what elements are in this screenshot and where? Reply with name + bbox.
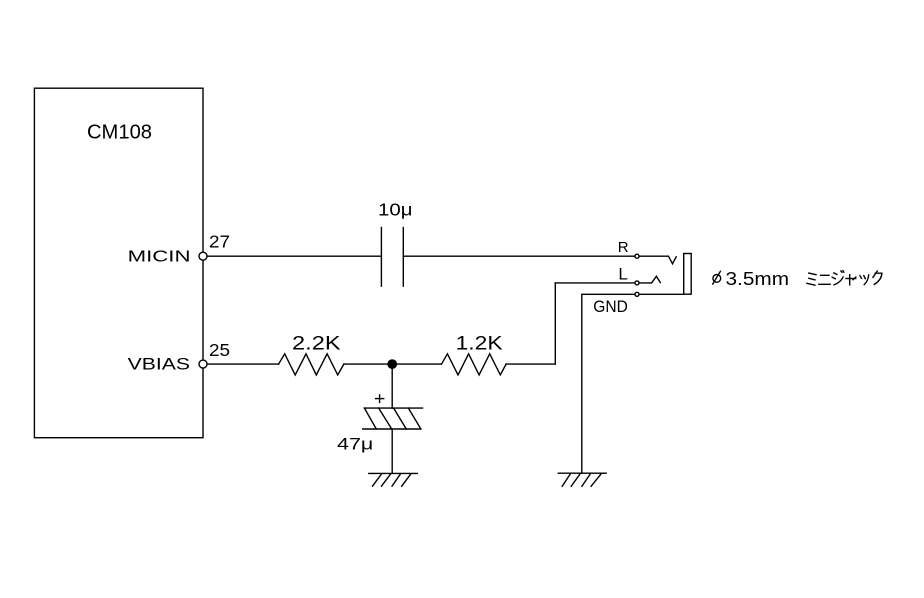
capacitor C1 10u left plate <box>380 228 382 287</box>
katakana ZI <box>832 271 844 285</box>
pin 27 terminal circle <box>199 252 207 260</box>
node A junction dot <box>388 360 396 368</box>
jack GND terminal circle <box>635 292 639 296</box>
svg-text:GND: GND <box>593 298 628 316</box>
jack J1 R contact wire and spring <box>640 256 677 264</box>
ground GND2 under jack <box>558 473 606 486</box>
wire R2 to corner <box>506 363 555 365</box>
svg-text:CM108: CM108 <box>87 120 152 143</box>
wire vertical up to L line <box>554 283 556 364</box>
katakana small YA <box>846 275 856 285</box>
jack J1 GND wire to sleeve <box>640 293 684 295</box>
svg-text:VBIAS: VBIAS <box>128 356 190 374</box>
ground GND1 under C2 <box>369 473 418 486</box>
svg-text:27: 27 <box>209 232 230 252</box>
resistor R1 2.2K zigzag <box>279 354 344 375</box>
katakana small TSU <box>860 275 869 285</box>
IC U1 CM108 body <box>34 88 203 438</box>
svg-text:R: R <box>618 239 629 256</box>
pin 25 terminal circle <box>199 360 207 368</box>
svg-text:47μ: 47μ <box>337 436 373 454</box>
svg-text:1.2K: 1.2K <box>456 333 503 354</box>
jack J1 L contact wire and spring <box>640 276 661 283</box>
wire MICIN pin27 to C1 left plate <box>208 255 382 257</box>
svg-text:2.2K: 2.2K <box>292 333 341 354</box>
svg-text:3.5mm: 3.5mm <box>726 269 790 289</box>
jack L terminal circle <box>635 281 639 285</box>
capacitor C2 47u hatched negative plate <box>363 408 421 429</box>
wire jack GND terminal to ground <box>582 294 635 473</box>
wire node A down to C2 top plate <box>391 364 393 408</box>
resistor R2 1.2K zigzag <box>442 354 507 375</box>
svg-text:10μ: 10μ <box>378 200 413 220</box>
wire to jack L terminal <box>555 282 634 284</box>
diameter symbol of jack label <box>713 271 721 284</box>
wire C1 to jack R terminal <box>403 255 634 257</box>
wire R1 to node A to R2 <box>344 363 442 365</box>
svg-text:L: L <box>618 265 627 284</box>
capacitor C2 polarity plus sign <box>376 395 384 403</box>
wire VBIAS pin25 to R1 <box>208 363 279 365</box>
svg-text:MICIN: MICIN <box>128 249 191 266</box>
katakana MI <box>807 273 816 285</box>
svg-text:25: 25 <box>209 340 230 360</box>
label katakana mini-jack drawn as strokes <box>807 271 882 286</box>
wire C2 bottom to ground <box>391 429 393 473</box>
capacitor C1 10u right plate <box>402 228 404 287</box>
katakana KU <box>873 271 882 284</box>
katakana NI <box>819 275 830 284</box>
capacitor C2 47u top plate <box>364 407 422 409</box>
jack J1 sleeve body <box>684 254 692 295</box>
jack R terminal circle <box>635 254 639 258</box>
